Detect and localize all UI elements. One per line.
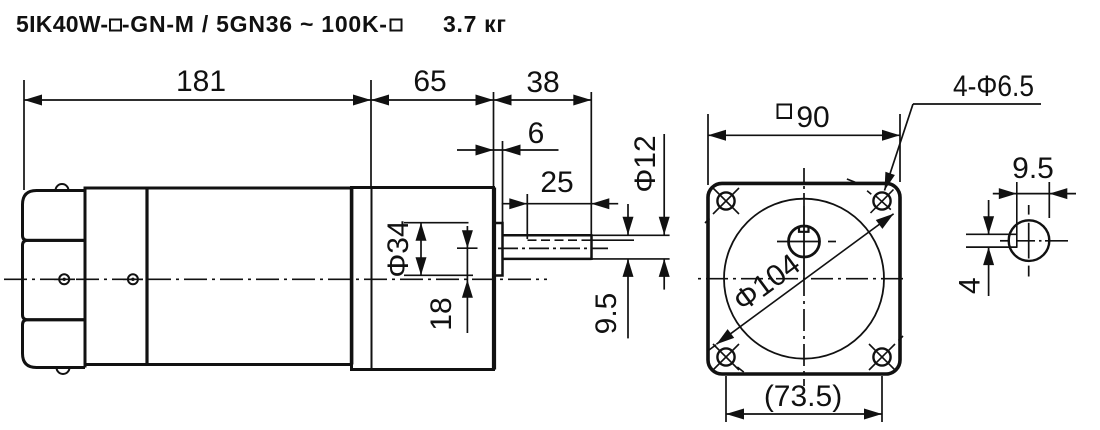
svg-text:(73.5): (73.5): [764, 380, 842, 413]
dim 73.5 line: [726, 413, 882, 415]
dim 9.5 line upper: [627, 204, 629, 235]
detail right extension: [1048, 182, 1050, 218]
dim square90 square symbol: [778, 105, 792, 119]
svg-text:9.5: 9.5: [1012, 152, 1054, 185]
dim phi12 arrows: [659, 217, 670, 235]
dim 181/65 shared extension line: [370, 80, 372, 188]
dim square90 line: [708, 134, 900, 136]
rear cap top screw bump: [56, 184, 69, 191]
label 4-phi6.5 leader shelf: [913, 103, 1041, 105]
detail dim 4 arrows: [983, 216, 994, 234]
dim square90 left extension: [707, 114, 709, 185]
front view vertical centerline: [803, 168, 805, 386]
detail dim 4 bottom extension: [966, 246, 1017, 248]
label 4-phi6.5 leader arrow: [885, 172, 895, 191]
label 4-phi6.5 leader diagonal: [885, 104, 914, 191]
dim 25 extension line left: [526, 194, 528, 239]
svg-text:25: 25: [540, 166, 573, 199]
motor rear cap bottom section: [23, 320, 86, 368]
detail dim 9.5 arrows: [999, 188, 1017, 199]
svg-text:4-Φ6.5: 4-Φ6.5: [953, 70, 1034, 103]
centerline screw 2: [128, 274, 138, 284]
motor body joint line: [145, 188, 148, 365]
title square symbol 2: [391, 20, 402, 31]
detail vertical centerline: [1028, 205, 1030, 277]
detail horizontal centerline: [1000, 240, 1068, 242]
dim 73.5 left extension: [725, 376, 727, 422]
dim 38 line: [494, 99, 592, 101]
detail dim 9.5 line: [993, 193, 1076, 195]
detail dim 4 line lower: [988, 247, 990, 296]
dim square90 right extension: [899, 114, 901, 182]
dim square90 arrows: [708, 130, 726, 141]
gearbox flange line: [371, 188, 373, 370]
shaft flat hidden dashed line: [528, 239, 592, 241]
dim 65 arrows: [371, 95, 389, 106]
front view pilot circle: [724, 199, 884, 359]
dim 181 line: [24, 99, 371, 101]
dim 9.5 line lower: [627, 259, 629, 339]
gearbox block outline: [352, 188, 494, 370]
svg-text:6: 6: [528, 117, 545, 150]
TR hole phi104-direction dash-dot marks: [847, 179, 855, 182]
shaft bottom edge: [503, 258, 592, 261]
dim 181 left extension line: [23, 80, 25, 190]
dim 6 extension line right: [502, 141, 504, 223]
dim 6 line: [457, 149, 559, 151]
corner hole cross marks: [705, 179, 903, 372]
svg-text:3.7 кг: 3.7 кг: [443, 11, 507, 37]
dim 38 extension line right: [590, 92, 592, 235]
svg-text:90: 90: [796, 101, 829, 134]
detail dim 4 line upper: [988, 200, 990, 234]
svg-text:9.5: 9.5: [590, 293, 623, 335]
output boss: [494, 223, 503, 276]
detail dim 4 top extension: [966, 233, 1017, 235]
dim 25 line: [502, 203, 618, 205]
motor centerline: [4, 278, 547, 280]
dim 9.5 arrows: [623, 217, 634, 235]
dim 18 arrows: [462, 230, 473, 248]
motor rear cap middle section: [23, 240, 86, 319]
shaft top edge: [503, 234, 592, 237]
shaft bottom extension line: [592, 258, 670, 260]
motor body outline: [85, 188, 352, 365]
dim 6 arrows: [476, 145, 494, 156]
shaft centerline: [498, 247, 608, 249]
detail shaft section circle: [1009, 220, 1050, 261]
svg-text:4: 4: [954, 277, 987, 294]
motor rear cap top section: [23, 191, 86, 241]
svg-text:38: 38: [526, 66, 559, 99]
front view square flange: [708, 183, 900, 374]
dim phi104 diagonal line: [716, 214, 893, 344]
svg-text:65: 65: [413, 65, 446, 98]
dim phi34 top extension line: [404, 222, 469, 224]
centerline screw 1: [59, 274, 69, 284]
svg-text:Φ34: Φ34: [382, 220, 415, 277]
shaft top extension line: [592, 234, 670, 236]
dim 25 arrows: [509, 198, 527, 209]
svg-text:5IK40W-: 5IK40W-: [16, 11, 108, 37]
dim phi34 arrows: [416, 223, 427, 241]
dim phi34 line: [420, 223, 422, 276]
dim 18 line: [466, 226, 468, 333]
dim phi12 line lower: [663, 259, 665, 290]
dim 73.5 arrows: [726, 409, 744, 420]
detail flat chord line: [1016, 182, 1018, 248]
front shaft horizontal centerline: [777, 241, 820, 243]
shaft end edge: [590, 234, 593, 260]
rear cap bottom screw bump: [57, 368, 70, 375]
dim phi34 bottom extension line: [404, 274, 473, 276]
svg-text:Φ12: Φ12: [629, 135, 662, 192]
front shaft circle: [789, 226, 820, 257]
rear cap right edge: [84, 191, 87, 368]
front shaft keyway: [799, 226, 809, 232]
dim 181 arrows: [24, 95, 42, 106]
dim 18 extension line top: [457, 247, 478, 249]
dim phi104 arrows: [716, 329, 734, 344]
svg-text:18: 18: [425, 297, 458, 330]
svg-text:181: 181: [176, 65, 226, 98]
title text 5IK40W: [16, 11, 507, 37]
dim 65 line: [371, 99, 494, 101]
corner hole top-left: [717, 192, 890, 365]
shaft flat extension line: [592, 239, 635, 241]
svg-text:-GN-M / 5GN36 ~ 100K-: -GN-M / 5GN36 ~ 100K-: [122, 11, 388, 37]
dim 65/38 shared extension line: [493, 92, 495, 188]
dim phi12 line upper: [663, 134, 665, 235]
dim 38 arrows: [494, 95, 512, 106]
front view horizontal centerline: [698, 278, 908, 280]
dim 73.5 right extension: [881, 376, 883, 422]
title square symbol 1: [110, 20, 121, 31]
hole centerline dashes: [705, 219, 710, 224]
